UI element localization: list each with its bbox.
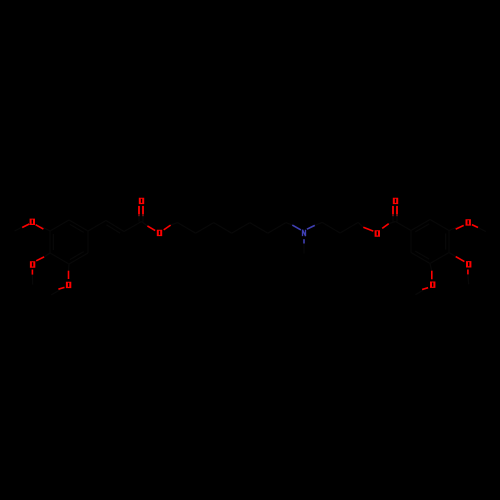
right benzene ring — [411, 220, 449, 264]
methoxy O3 label — [66, 282, 71, 288]
vinyl C=C and chain bonds (carbon, dark) — [15, 215, 486, 295]
bond O9-CH3 (red half) — [467, 270, 469, 275]
bond O2-CH3 (red half) — [31, 270, 33, 275]
bond O8-ring (red half) — [456, 225, 464, 229]
methoxy O10 label — [430, 282, 435, 288]
ester O5 label — [157, 230, 162, 236]
methoxy O8 label — [466, 219, 471, 225]
C=O double bond left (red halves) — [138, 206, 140, 214]
amine N label — [303, 230, 306, 236]
ester O6 label — [375, 230, 380, 236]
bond O5-chain (red half) — [164, 225, 171, 230]
bond chain-O6 (red half) — [363, 227, 373, 231]
bond O8-CH3 (red half) — [472, 225, 478, 228]
bonds at N (blue halves) — [292, 225, 301, 230]
bond O6-C(=O) (red half) — [382, 224, 389, 229]
carbonyl O4 label — [139, 198, 144, 204]
bond C(=O)-O5 (red half) — [147, 226, 155, 231]
methoxy O1 label — [30, 219, 35, 225]
left benzene ring — [50, 220, 88, 264]
bond O9-ring (red half) — [456, 257, 465, 262]
carbonyl O7 label — [393, 198, 398, 204]
bond O1-CH3 (red half) — [22, 224, 29, 228]
C=O double bond right (red halves) — [392, 206, 394, 214]
bond O2-ring (red half) — [36, 257, 44, 261]
methoxy O9 label — [466, 261, 471, 267]
bond O1-ring (red half) — [36, 225, 44, 229]
bond O10-CH3 (red half) — [422, 288, 428, 290]
bond O3-CH3 (red half) — [58, 287, 64, 289]
methoxy O2 label — [30, 261, 35, 267]
bond O3-ring (red half) — [68, 271, 70, 279]
bond O10-ring (red half) — [431, 271, 433, 280]
